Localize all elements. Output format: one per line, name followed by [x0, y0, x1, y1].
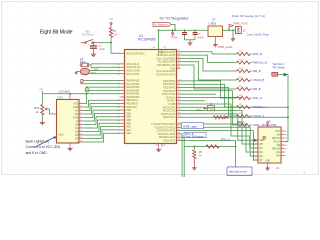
svg-text:QD: QD — [259, 151, 263, 154]
lcd module DS1 body — [57, 100, 80, 144]
wire regulator input — [223, 29, 236, 31]
svg-text:QH': QH' — [276, 154, 281, 157]
svg-text:QB: QB — [259, 143, 263, 146]
svg-text:Rom_B Register: Rom_B Register — [186, 135, 205, 138]
capacitor C7 — [194, 30, 196, 32]
lcd DS1 left pin — [53, 113, 57, 115]
power +5v symbol on bus — [172, 29, 174, 31]
ic U1 bottom power pins — [158, 144, 160, 147]
svg-text:QF: QF — [259, 159, 263, 162]
wire label to bus — [171, 24, 175, 30]
wire speaker left with junction cross — [76, 71, 80, 73]
wire RC0 to IC2 with entry arrow — [180, 114, 254, 140]
wire C2 to ground — [93, 49, 95, 53]
junction MCLR — [110, 42, 112, 44]
junction at LCD pin 2 — [69, 93, 71, 95]
svg-text:Eight Bit Mode: Eight Bit Mode — [40, 30, 73, 36]
resistor column right side — [237, 51, 262, 56]
regulator U7 L7805 body — [208, 26, 223, 37]
wire RC5 — [180, 96, 243, 98]
svg-text:Test NA 1: Test NA 1 — [273, 62, 285, 66]
wire MCLR net horizontal — [97, 42, 111, 44]
label USB Light — [182, 123, 204, 129]
wire caps to ground — [185, 39, 196, 41]
wire crystal to U1 OSC pins — [91, 63, 121, 65]
ground at input — [231, 37, 236, 41]
wire stairs U1 upper-right to resistors — [180, 52, 236, 54]
input cap to ground — [232, 29, 234, 31]
wire RB2 to IC2 — [180, 131, 258, 160]
svg-text:T3CKI/SDO+RC5: T3CKI/SDO+RC5 — [156, 74, 176, 77]
svg-text:SW1: SW1 — [85, 29, 91, 33]
ground below U1 — [156, 147, 161, 151]
capacitor C4 — [184, 30, 186, 32]
wire RA6 with USB light led — [180, 116, 288, 118]
svg-text:QE: QE — [259, 155, 263, 158]
capacitor C2 on MCLR — [93, 43, 95, 46]
svg-text:+5v: +5v — [196, 108, 201, 112]
svg-text:0.1uF: 0.1uF — [172, 37, 179, 40]
svg-text:C3 10uF: C3 10uF — [59, 90, 70, 94]
ic U5 bottom pin to ground — [267, 163, 269, 166]
ic U1 top power pins — [158, 50, 160, 54]
svg-text:QC: QC — [259, 147, 263, 150]
ic U5 left pins — [252, 139, 265, 142]
component small red on RA0 wire — [81, 80, 83, 83]
ground below R5 — [192, 166, 197, 170]
svg-text:RE2: RE2 — [126, 132, 131, 135]
ground below RV1 — [40, 121, 45, 125]
resistor R5 — [193, 150, 196, 159]
led USB light — [224, 116, 228, 119]
wire MCLR to U1 pin 1 — [111, 43, 121, 54]
ground below C2 — [91, 52, 96, 56]
ic U1 left pins with numbers and names — [119, 52, 146, 55]
wire RA2 — [85, 86, 120, 88]
svg-text:RW/CLK_B: RW/CLK_B — [253, 61, 267, 65]
svg-text:Sync Serial+RC4: Sync Serial+RC4 — [156, 70, 176, 73]
svg-text:and K to GND: and K to GND — [26, 151, 48, 155]
arrow note to LCD — [36, 137, 55, 147]
svg-text:VFD_B: VFD_B — [253, 52, 262, 56]
ground below caps — [188, 41, 193, 45]
wire bus down to U1 VDD — [158, 30, 160, 49]
svg-text:1.2uF: 1.2uF — [98, 47, 105, 51]
ground below regulator — [213, 43, 218, 47]
hierarchical label 5v input — [153, 22, 171, 26]
speaker C-SPK — [80, 68, 89, 74]
resistor on USB light wire — [214, 116, 224, 119]
wiper RV1 to LCD — [46, 109, 53, 114]
wire RB5 to directly header — [180, 140, 235, 167]
svg-text:16x2: 16x2 — [58, 133, 64, 137]
wire RB1 to IC2 — [180, 127, 258, 156]
resistor R7 — [109, 28, 112, 38]
svg-text:MCLR/VPP/RE3: MCLR/VPP/RE3 — [126, 52, 145, 55]
ic U1 PIC18F4550 body — [125, 50, 177, 144]
component green circle sensor — [85, 88, 89, 92]
svg-text:TP | Mode: TP | Mode — [273, 66, 286, 70]
wire TP vertical down — [287, 74, 289, 142]
wire RB0 to IC2 — [180, 124, 258, 152]
wire speaker pin 2 — [89, 73, 120, 75]
svg-text:BTN_A: BTN_A — [221, 138, 230, 142]
svg-text:PWR_FLAG: PWR_FLAG — [218, 45, 232, 49]
svg-text:10k: 10k — [113, 32, 118, 36]
svg-text:SER: SER — [259, 139, 264, 142]
regulator ground pin — [214, 37, 216, 44]
svg-text:L7805: L7805 — [209, 22, 217, 26]
wire RV1 bottom to ground — [41, 115, 43, 121]
wire +5v node horizontal to U1 RA4 — [42, 93, 120, 95]
svg-text:RC1/T1OSI: RC1/T1OSI — [126, 73, 139, 76]
svg-text:5v TO Regulator: 5v TO Regulator — [160, 15, 190, 20]
switch SW1 Tile-Reset — [81, 39, 97, 43]
potentiometer RV1 — [41, 105, 44, 116]
wire TP to vertical — [278, 74, 284, 76]
svg-text:Conn_01x02_Phoe: Conn_01x02_Phoe — [247, 32, 270, 36]
wire VUSB to IC2 area — [180, 104, 258, 148]
wire RB3 down left — [180, 134, 182, 177]
wire R7 to MCLR net — [110, 38, 112, 43]
power flag symbol — [228, 29, 230, 31]
svg-text:R5: R5 — [199, 150, 203, 154]
ic U1 right pins with numbers and names — [158, 50, 181, 54]
wire LCD top pin — [69, 94, 71, 100]
wire RC6 long — [180, 93, 216, 95]
svg-text:Connect A to VCC (5V): Connect A to VCC (5V) — [26, 145, 61, 149]
ic U5 top power pin — [267, 124, 269, 127]
svg-text:WR_B: WR_B — [253, 69, 261, 73]
wire RA3 — [85, 89, 120, 91]
svg-text:Tile-Reset: Tile-Reset — [82, 33, 94, 37]
wire RC4 short — [180, 100, 205, 102]
svg-text:5v_Regulator: 5v_Regulator — [154, 24, 168, 27]
svg-text:DS1: DS1 — [58, 95, 64, 99]
note back light text — [26, 140, 61, 155]
sheet frame — [2, 2, 319, 175]
wire RC1 to IC2 — [180, 111, 258, 144]
power +5v flag left — [41, 91, 43, 94]
wire RA1 — [81, 83, 121, 85]
connector J2 screw terminal — [235, 27, 241, 34]
svg-text:R7: R7 — [113, 29, 117, 33]
wire RA0 — [83, 80, 121, 82]
label box Rom_B Register — [184, 132, 206, 138]
wire +5v to LCD pin 1 — [83, 94, 87, 104]
wire speaker pin 1 — [90, 70, 121, 72]
lcd DS1 bottom pin to ground — [69, 143, 71, 146]
label box directly head — [227, 167, 252, 176]
wire TP to U5 RCLK — [285, 141, 288, 143]
svg-text:PWR_FLAG: PWR_FLAG — [234, 21, 248, 25]
svg-text:SL8/HC595: SL8/HC595 — [263, 123, 277, 127]
svg-text:PIC18F4550: PIC18F4550 — [138, 38, 156, 42]
svg-text:CS/SA_A: CS/SA_A — [253, 114, 265, 118]
power +5V above R7 — [110, 22, 112, 27]
svg-text:RA6/OSC2: RA6/OSC2 — [163, 116, 176, 119]
svg-text:CS/SA_B: CS/SA_B — [253, 78, 265, 82]
lcd DS1 right pins — [73, 102, 83, 105]
wire RC2 long to TP line — [180, 106, 288, 108]
test point pad — [272, 72, 278, 76]
svg-text:VFD_A: VFD_A — [253, 96, 262, 100]
svg-text:MK2: MK2 — [91, 71, 97, 75]
resistor button series — [206, 145, 219, 148]
ic U5 74HC595 body — [258, 127, 281, 163]
ic U5 clock circle — [263, 137, 266, 140]
wire stairs U1 mid-right to resistors — [180, 81, 236, 98]
ic U5 right pins — [275, 130, 288, 133]
svg-text:PWR: PWR — [208, 108, 214, 111]
svg-text:directly head: directly head — [229, 170, 247, 174]
wire RB4 down mid — [180, 137, 184, 177]
svg-text:From 9V source (or 7.4): From 9V source (or 7.4) — [232, 14, 265, 18]
svg-text:SDO+RC5: SDO+RC5 — [163, 140, 175, 143]
svg-text:USB Light: USB Light — [183, 124, 197, 128]
wire +5v bus — [159, 29, 208, 31]
svg-text:100uF: 100uF — [197, 37, 204, 40]
svg-text:2: 2 — [304, 171, 306, 175]
crystal Y1 — [80, 63, 91, 67]
svg-text:WR_B: WR_B — [253, 87, 261, 91]
svg-text:+5v: +5v — [109, 17, 114, 21]
svg-text:GND: GND — [265, 161, 270, 163]
wire button net — [184, 146, 235, 148]
wire bus LCD to U1 nested — [83, 100, 121, 107]
